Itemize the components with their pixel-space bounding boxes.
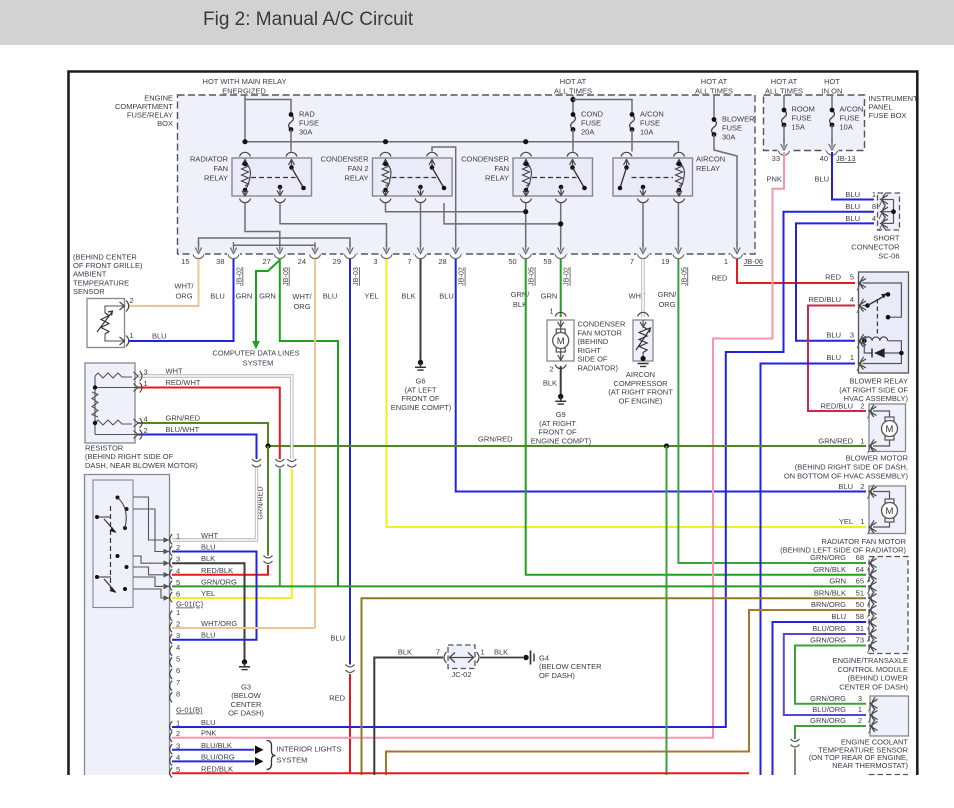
wire RED below connector to red bus [349,674,351,773]
wire: aircon mid to exit 7b [642,203,644,247]
wire RED/BLK red bus [172,772,749,774]
svg-text:BRN/BLK: BRN/BLK [814,588,846,597]
relay AIRCON RELAY U4 [613,158,693,196]
svg-text:FUSE BOX: FUSE BOX [869,111,907,120]
wire BLU switch pin2 to pin D3 [172,552,257,640]
svg-text:6: 6 [176,666,180,675]
node: bus junction radiator [242,139,247,144]
svg-text:2: 2 [860,402,864,411]
wire BLU exit38 to ambient pin1 [128,259,234,341]
svg-text:RED: RED [712,274,728,283]
wire: condenser2 switch out to node 59 [444,203,561,224]
svg-text:3: 3 [850,331,854,340]
svg-text:BLOWER MOTOR: BLOWER MOTOR [846,454,909,463]
wire WHT below connector to switch pin1 [172,469,257,541]
svg-text:BRN/ORG: BRN/ORG [811,600,846,609]
svg-text:WHT: WHT [166,367,183,376]
svg-text:FRONT OF: FRONT OF [538,428,577,437]
svg-text:RIGHT: RIGHT [578,346,602,355]
wire RED/BLU blower relay pin4 to blower motor pin2 [808,306,866,412]
svg-text:ENGINE/TRANSAXLE: ENGINE/TRANSAXLE [833,656,908,665]
svg-text:1: 1 [144,379,148,388]
wire WHT/ORG exit15 to ambient pin2 [128,259,199,306]
svg-text:BLU/ORG: BLU/ORG [812,705,846,714]
svg-text:JB-05: JB-05 [527,267,536,286]
exit 7 at x=643 [637,253,650,255]
wire GRN exit27 to ECM branch [280,259,338,586]
svg-text:FRONT OF: FRONT OF [401,394,440,403]
svg-text:YEL: YEL [839,517,853,526]
svg-text:FUSE: FUSE [840,114,860,123]
fuse A/CON FUSE 10A [630,112,635,132]
svg-text:G9: G9 [556,410,566,419]
svg-text:GRN: GRN [829,577,846,586]
svg-text:1: 1 [860,517,864,526]
svg-text:65: 65 [856,577,864,586]
svg-text:5: 5 [176,578,180,587]
svg-text:CONDENSER: CONDENSER [578,320,627,329]
node: bus junction condenser2 [383,139,388,144]
blower relay [859,272,909,373]
wire: condenser2 mid to exit 7 [420,203,422,247]
svg-text:59: 59 [543,257,551,266]
svg-text:CONDENSER: CONDENSER [461,155,510,164]
svg-text:BLK: BLK [201,554,215,563]
svg-text:FUSE: FUSE [299,119,319,128]
wire: condenser mid to exit 59 [560,203,562,247]
svg-text:68: 68 [856,553,864,562]
svg-text:GRN/ORG: GRN/ORG [810,636,846,645]
svg-text:2: 2 [176,729,180,738]
svg-text:1: 1 [850,353,854,362]
svg-text:73: 73 [856,636,864,645]
svg-text:ORG: ORG [658,300,675,309]
svg-text:4: 4 [144,415,148,424]
svg-text:WHT: WHT [201,531,218,540]
svg-text:RADIATOR FAN MOTOR: RADIATOR FAN MOTOR [821,537,906,546]
resistor (blower) [85,363,135,443]
svg-text:RED: RED [329,694,345,703]
wire BLK motor to ground G9 [560,366,562,395]
exit 15 at x=198.5 [192,253,205,255]
svg-text:NEAR THERMOSTAT): NEAR THERMOSTAT) [832,761,908,770]
svg-text:FUSE: FUSE [792,114,812,123]
svg-text:1: 1 [176,608,180,617]
partial dashed box bottom [869,774,908,776]
svg-text:RADIATOR: RADIATOR [190,155,229,164]
svg-text:JB-02: JB-02 [457,267,466,286]
engine coolant temperature sensor [870,696,909,736]
node: junction exit 59 [558,221,563,226]
svg-text:HVAC ASSEMBLY): HVAC ASSEMBLY) [844,394,909,403]
exit 7 at x=420.5 [414,253,427,255]
wire BLU to ECM 58 [773,622,867,775]
svg-text:15A: 15A [792,123,805,132]
wire GRN exit59 to condenser fan motor pin1 [560,259,562,317]
svg-text:RAD: RAD [299,110,315,119]
svg-text:24: 24 [298,257,306,266]
svg-text:4: 4 [850,295,854,304]
svg-text:OF DASH): OF DASH) [539,671,575,680]
svg-text:5: 5 [850,273,854,282]
svg-text:ALL TIMES: ALL TIMES [765,87,803,96]
svg-text:28: 28 [438,257,446,266]
svg-text:ALL TIMES: ALL TIMES [554,87,592,96]
brace interior lights [267,741,276,770]
ECM pin 31 [868,627,877,642]
wire: hot main relay feed [244,95,246,142]
svg-text:FAN: FAN [494,164,509,173]
svg-text:7: 7 [176,678,180,687]
wire RED/BLK to switch pin4 [172,565,268,575]
instrument panel fuse box [764,95,865,151]
svg-text:IN ON: IN ON [822,87,843,96]
svg-text:GRN: GRN [259,292,276,301]
svg-text:3: 3 [176,555,180,564]
svg-text:GRN/ORG: GRN/ORG [810,553,846,562]
ECM pin 51 [868,591,877,606]
wire BLK JC-02 to G4 [480,657,523,659]
svg-text:RELAY: RELAY [344,174,368,183]
fuse COND FUSE 20A [571,112,576,132]
svg-text:BLU: BLU [815,175,830,184]
svg-text:ROOM: ROOM [792,105,815,114]
exit 33 [778,149,791,151]
svg-text:1: 1 [481,648,485,657]
svg-text:WHT/: WHT/ [174,282,194,291]
svg-text:7: 7 [630,257,634,266]
wire GRN exit27 to computer data lines [256,260,280,341]
svg-text:ORG: ORG [175,292,192,301]
fuse RAD FUSE 30A [289,112,294,132]
relay CONDENSER FAN RELAY U3 [513,158,593,196]
svg-text:HOT WITH MAIN RELAY: HOT WITH MAIN RELAY [203,77,287,86]
svg-text:1: 1 [176,719,180,728]
svg-text:BLU: BLU [323,292,338,301]
svg-text:BLU: BLU [201,543,216,552]
wire WHT resistor pin3 down [138,376,292,459]
svg-text:SYSTEM: SYSTEM [277,756,308,765]
svg-text:BLU: BLU [845,202,860,211]
wire GRN/ORG exit19 to ECM 68 [678,259,866,563]
svg-text:RED/BLK: RED/BLK [201,566,233,575]
svg-text:RED/WHT: RED/WHT [166,378,201,387]
wire: condenser coil to exit 50 [525,203,527,247]
svg-text:SIDE OF: SIDE OF [578,355,608,364]
svg-text:2: 2 [144,426,148,435]
svg-text:FUSE: FUSE [722,124,742,133]
ECM pin 65 [868,579,877,594]
connector chevron BLU to RED [346,665,355,673]
svg-text:BLU/BLK: BLU/BLK [201,741,232,750]
exit 27 at x=279.8 [273,253,286,255]
svg-text:BLU: BLU [845,214,860,223]
wire: exit38 to exit24 link [234,245,316,247]
svg-text:A/CON: A/CON [840,105,864,114]
svg-text:HOT AT: HOT AT [701,77,728,86]
svg-text:YEL: YEL [364,292,378,301]
svg-text:GRN/RED: GRN/RED [818,437,853,446]
wire: blower fuse to exit 1 [714,135,737,248]
svg-text:2: 2 [858,716,862,725]
svg-text:GRN/ORG: GRN/ORG [810,694,846,703]
svg-text:FAN: FAN [213,164,228,173]
svg-text:1: 1 [860,437,864,446]
svg-text:RELAY: RELAY [204,174,228,183]
svg-text:ENGINE COMPT): ENGINE COMPT) [531,436,592,445]
svg-text:PNK: PNK [201,729,216,738]
svg-text:RELAY: RELAY [696,164,720,173]
svg-text:FAN MOTOR: FAN MOTOR [578,328,623,337]
engine compartment fuse/relay box [178,95,756,254]
wire YEL below connector to switch pin6 [172,469,292,599]
exit 19 at x=678.4 [672,253,685,255]
wire BLU exit29 down to connector [349,259,351,665]
wire: radiator switch out to exit 3 [280,203,387,247]
ECM connector [869,557,908,654]
connector chevron GRN/RED to RED/BLK [264,556,273,564]
svg-text:BLU/WHT: BLU/WHT [166,425,200,434]
node: junction exit 50 [523,209,528,214]
exit 28 at x=455.7 [449,253,462,255]
svg-text:GRN: GRN [541,292,558,301]
svg-text:WHT/: WHT/ [292,292,312,301]
svg-text:AMBIENT: AMBIENT [73,270,107,279]
svg-text:JB-02: JB-02 [562,267,571,286]
wire: acon fuse branch [573,100,632,115]
svg-text:RADIATOR): RADIATOR) [578,364,619,373]
wire RED exit1 to blower relay pin5 [737,259,855,283]
svg-text:SHORT: SHORT [873,234,900,243]
ground G6 [415,360,426,370]
svg-text:JB-06: JB-06 [744,257,764,266]
svg-text:OF ENGINE): OF ENGINE) [619,396,663,405]
svg-text:YEL: YEL [201,589,215,598]
svg-text:BLU: BLU [826,353,841,362]
svg-text:JB-02: JB-02 [235,267,244,286]
svg-text:GRN/: GRN/ [658,290,678,299]
svg-text:33: 33 [772,154,780,163]
svg-text:JB-03: JB-03 [351,267,360,286]
svg-text:7: 7 [407,257,411,266]
A/C heater control switch box [85,475,170,776]
svg-text:TEMPERATURE: TEMPERATURE [73,278,129,287]
wire: hot at all times feed [572,95,574,115]
wire BLU exit28 to radiator fan motor pin2 [456,259,866,492]
svg-text:FAN 2: FAN 2 [348,164,369,173]
svg-text:(AT RIGHT: (AT RIGHT [539,419,576,428]
svg-text:19: 19 [661,257,669,266]
svg-text:A/CON: A/CON [640,110,664,119]
wire: condenser2 coil to node 50 [386,203,526,212]
svg-text:29: 29 [333,257,341,266]
wire BLK exit7 to ground G6 [420,259,422,361]
svg-text:ALL TIMES: ALL TIMES [695,87,733,96]
svg-text:GRN/ORG: GRN/ORG [201,577,237,586]
svg-text:3: 3 [373,257,377,266]
svg-text:10A: 10A [640,128,653,137]
svg-text:AIRCON: AIRCON [696,155,725,164]
aircon compressor clutch [633,320,653,361]
svg-text:50: 50 [856,600,864,609]
svg-text:PNK: PNK [767,175,782,184]
svg-text:SENSOR: SENSOR [73,287,105,296]
svg-text:BLOWER: BLOWER [722,115,755,124]
svg-text:CENTER OF DASH): CENTER OF DASH) [839,682,908,691]
svg-text:RED/BLK: RED/BLK [201,764,233,773]
svg-text:4: 4 [176,566,180,575]
svg-text:RED: RED [825,273,841,282]
ECM pin 58 [868,615,877,630]
ambient temperature sensor [87,299,125,348]
svg-text:JC-02: JC-02 [451,670,471,679]
svg-text:30A: 30A [722,133,735,142]
fuse BLOWER FUSE 30A [712,117,717,137]
svg-text:BLU: BLU [330,634,345,643]
wire YEL exit3 to radiator fan motor pin1 [387,259,867,527]
fuse A/CON FUSE 10A instrument [831,95,833,110]
blower motor [869,404,906,452]
svg-text:BLK: BLK [543,379,557,388]
svg-text:38: 38 [216,257,224,266]
exit 3 at x=386.5 [380,253,393,255]
svg-text:GRN/BLK: GRN/BLK [813,565,846,574]
svg-text:BLU: BLU [838,482,853,491]
switch ladder wires [133,497,170,540]
ground G9 [555,394,566,404]
svg-text:RELAY: RELAY [485,174,509,183]
svg-text:4: 4 [872,214,876,223]
svg-text:SYSTEM: SYSTEM [243,359,274,368]
svg-text:BLU: BLU [826,331,841,340]
svg-text:BLU/ORG: BLU/ORG [812,624,846,633]
wire RED/WHT resistor pin1 down [138,388,280,460]
svg-text:Fig 2: Manual A/C Circuit: Fig 2: Manual A/C Circuit [203,9,414,30]
pin 1 ambient [120,337,125,345]
svg-text:4: 4 [176,643,180,652]
wire GRN row to ECM 65 / switch pin5 [172,585,866,587]
svg-text:BLK: BLK [494,648,508,657]
svg-text:15: 15 [181,257,189,266]
svg-text:BLU: BLU [201,718,216,727]
svg-text:BLK: BLK [401,292,415,301]
svg-text:COMPUTER DATA LINES: COMPUTER DATA LINES [212,349,299,358]
exit 29 at x=350 [344,253,357,255]
exit 40 [826,149,839,151]
ECM pin 50 [868,603,877,618]
svg-text:3: 3 [144,368,148,377]
wire GRN/RED down to connector [267,446,269,556]
node: resistor rail taps [93,385,97,389]
svg-text:BOX: BOX [157,119,173,128]
svg-text:ORG: ORG [293,302,310,311]
wire GRN/ORG below connector to row [279,469,281,587]
wire GRN branch down from 666.5 [666,446,668,775]
pin 2 ambient [120,302,125,310]
svg-text:G6: G6 [415,377,425,386]
node: grnred junction x666.5 [664,443,669,448]
svg-text:40: 40 [820,154,828,163]
svg-text:COMPRESSOR: COMPRESSOR [613,379,668,388]
svg-text:HOT: HOT [824,77,840,86]
svg-text:BLU: BLU [831,612,846,621]
wire: rad fuse feed [245,100,291,115]
svg-text:30A: 30A [299,128,312,137]
svg-text:FUSE: FUSE [640,119,660,128]
svg-text:BLU/ORG: BLU/ORG [201,752,235,761]
svg-text:(BEHIND LOWER: (BEHIND LOWER [848,674,909,683]
switch internals [110,506,112,589]
title bar [0,0,954,45]
svg-text:3: 3 [858,694,862,703]
exit 1 at x=737 [731,253,744,255]
svg-text:BLU: BLU [152,332,167,341]
wire: radiator coil to exit 27 [245,203,280,247]
svg-text:3: 3 [176,631,180,640]
ground G3 [239,659,250,669]
svg-text:(BEHIND: (BEHIND [578,337,609,346]
exit 38 at x=233.5 [227,253,240,255]
svg-text:G-01(B): G-01(B) [176,706,203,715]
node: fuse feed split [570,97,575,102]
wire: blower fuse feed [713,95,715,120]
svg-text:BLU: BLU [201,631,216,640]
ECM pin 73 [868,639,877,654]
svg-text:2: 2 [176,620,180,629]
exit 24 at x=315 [309,253,322,255]
wire: aircon coil to exit 19 [677,203,679,247]
wire WHT/ORG pin D2 [172,627,315,629]
svg-text:2: 2 [176,543,180,552]
svg-text:GRN/RED: GRN/RED [478,435,513,444]
ECM pin 68 [868,556,877,571]
wire: condenser2 switch top to exit 28 [432,147,456,247]
svg-text:FUSE: FUSE [581,119,601,128]
node SC-06 [891,209,896,214]
svg-text:CONTROL MODULE: CONTROL MODULE [837,665,908,674]
svg-text:INTERIOR LIGHTS: INTERIOR LIGHTS [277,745,342,754]
ECM pin 64 [868,568,877,583]
svg-text:6: 6 [176,590,180,599]
svg-text:BLU: BLU [210,292,225,301]
wire GRN/ORG ECM 73 to coolant pin3 [795,646,866,704]
connector G-01(C) second group pins [170,611,173,621]
svg-text:1: 1 [858,705,862,714]
svg-text:GRN: GRN [236,292,253,301]
svg-text:ENERGIZED: ENERGIZED [222,87,266,96]
wire BLU short connector pin8 to G-01(B) pin1 [172,212,874,727]
relay RADIATOR FAN RELAY U1 [232,158,312,196]
wire GRN/ORG coolant pin2 down [795,726,866,739]
wire GRN/BLK exit50 to ECM 64 [526,259,866,575]
svg-text:RED/BLU: RED/BLU [808,295,841,304]
wire BLU/WHT resistor pin2 down [138,435,257,460]
wire: main bus [245,142,678,152]
svg-text:(AT RIGHT SIDE OF: (AT RIGHT SIDE OF [839,385,908,394]
svg-text:JB-05: JB-05 [281,267,290,286]
svg-text:ENGINE COMPT): ENGINE COMPT) [391,403,452,412]
svg-text:BLU: BLU [439,292,454,301]
condenser fan motor [547,320,574,361]
svg-text:WHT/ORG: WHT/ORG [201,619,237,628]
svg-text:JB-05: JB-05 [679,267,688,286]
blower relay internals [863,283,902,317]
svg-text:1: 1 [130,331,134,340]
svg-text:OF DASH): OF DASH) [228,708,264,717]
connector G-01(B) pins [170,721,173,731]
fuse ROOM FUSE 15A [783,95,785,110]
svg-text:1: 1 [176,532,180,541]
